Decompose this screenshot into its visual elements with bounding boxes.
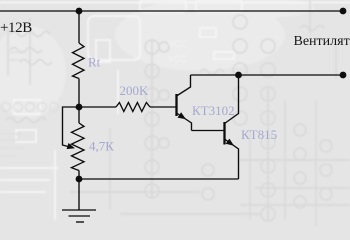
transistor Q2 emitter xyxy=(225,139,239,179)
wire Rt bottom lead to node A xyxy=(78,79,80,108)
resistor Rt xyxy=(73,43,85,79)
wire pot bottom lead xyxy=(78,171,80,180)
ground bar 1 xyxy=(62,209,96,211)
arrow wiper xyxy=(67,143,75,149)
node A junction xyxy=(76,104,83,111)
label +12V xyxy=(0,20,32,36)
svg-text:200K: 200K xyxy=(120,83,150,98)
faint gray watermark details (decorative) xyxy=(0,52,59,156)
transistor Q1 emitter xyxy=(177,113,192,131)
wire bottom rail xyxy=(79,178,239,180)
transistor Q2 collector xyxy=(225,75,239,124)
wire wiper arm from node A xyxy=(63,107,80,148)
node fan + terminal xyxy=(340,8,347,15)
svg-text:VCC: VCC xyxy=(168,39,188,49)
wire 200K to Q1 base xyxy=(150,106,176,108)
transistor Q1 collector xyxy=(177,75,191,96)
wire collector junction to fan terminal xyxy=(239,74,344,76)
wire ground stem xyxy=(78,179,80,210)
svg-text:КТ815: КТ815 xyxy=(241,127,277,142)
wire Q1 emitter to Q2 base xyxy=(192,130,225,132)
junction bottom rail xyxy=(76,176,83,183)
junction node top rail / Rt xyxy=(76,8,83,15)
svg-text:Вентилятор: Вентилятор xyxy=(294,34,350,49)
svg-text:VCC: VCC xyxy=(168,54,188,64)
transistor Q1 base bar xyxy=(175,94,177,116)
junction collectors xyxy=(235,72,242,79)
transistor Q2 base bar xyxy=(223,122,225,145)
wire node A to 200K xyxy=(79,106,116,108)
ground bar 3 xyxy=(76,221,84,223)
svg-text:Rt: Rt xyxy=(88,55,101,70)
svg-text:+12В: +12В xyxy=(0,20,32,36)
arrow Q2 emitter xyxy=(226,139,234,146)
wire pot top lead xyxy=(78,107,80,123)
svg-text:КТ3102: КТ3102 xyxy=(192,103,235,118)
label fan (Вентилятор) xyxy=(294,34,350,49)
ground bar 2 xyxy=(69,215,91,217)
wire top +12V rail xyxy=(0,10,343,12)
background watermark texture (decorative) xyxy=(0,0,315,118)
resistor 200K xyxy=(116,103,150,112)
node fan - terminal xyxy=(340,72,347,79)
arrow Q1 emitter xyxy=(178,112,187,119)
svg-text:4,7К: 4,7К xyxy=(89,139,114,154)
wire Q1 collector to junction xyxy=(191,74,239,76)
potentiometer 4.7K body xyxy=(72,123,85,171)
wire Rt top lead xyxy=(78,11,80,43)
